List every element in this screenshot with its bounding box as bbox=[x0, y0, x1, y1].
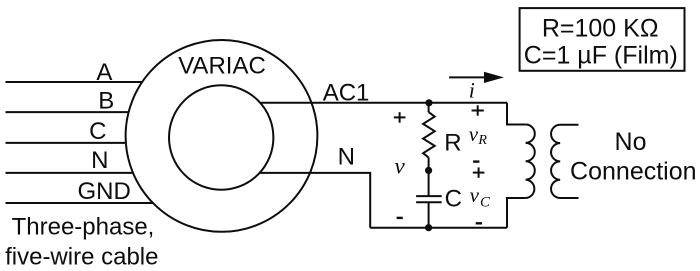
svg-text:C: C bbox=[445, 186, 462, 213]
wire phase B bbox=[6, 111, 129, 113]
inductor L2 secondary winding (no connection) bbox=[551, 125, 578, 198]
wire loop right side bottom bbox=[507, 198, 526, 228]
wire phase A bbox=[6, 81, 143, 83]
arrowhead of current i bbox=[484, 72, 504, 83]
plus sign v left bbox=[394, 116, 406, 118]
svg-text:five-wire cable: five-wire cable bbox=[5, 244, 158, 271]
minus sign vR bbox=[473, 160, 479, 162]
current arrow i bbox=[449, 76, 487, 78]
svg-text:Three-phase,: Three-phase, bbox=[12, 214, 155, 241]
wire resistor-capacitor link bbox=[428, 157, 430, 196]
node AC1 junction dot bbox=[425, 99, 432, 106]
wire bottom return bbox=[370, 227, 507, 229]
svg-text:AC1: AC1 bbox=[323, 79, 370, 106]
wire GND bbox=[6, 202, 153, 204]
svg-text:v: v bbox=[470, 183, 480, 207]
svg-text:VARIAC: VARIAC bbox=[178, 52, 266, 79]
inductor L1 primary winding bbox=[526, 125, 535, 199]
svg-text:B: B bbox=[98, 88, 114, 115]
svg-text:A: A bbox=[96, 59, 112, 86]
wire resistor top lead bbox=[428, 103, 430, 112]
capacitor C bottom plate bbox=[416, 201, 442, 203]
variac T1 outer circle bbox=[126, 40, 318, 232]
wire loop right side top bbox=[507, 103, 526, 125]
wire neutral N bbox=[6, 172, 134, 174]
svg-text:C: C bbox=[89, 118, 106, 145]
svg-text:GND: GND bbox=[78, 178, 131, 205]
capacitor C top plate bbox=[416, 195, 442, 197]
plus sign vR bbox=[472, 110, 484, 112]
wire capacitor bottom lead bbox=[428, 202, 430, 228]
svg-text:v: v bbox=[469, 122, 479, 146]
variac T1 inner circle bbox=[169, 85, 273, 189]
resistor R zigzag bbox=[423, 112, 435, 157]
plus sign vC bbox=[473, 172, 485, 174]
node R-C junction dot bbox=[425, 167, 432, 174]
svg-text:v: v bbox=[395, 154, 406, 179]
svg-text:R=100 KΩ: R=100 KΩ bbox=[542, 15, 659, 43]
wire N output bbox=[259, 173, 370, 228]
svg-text:Connection: Connection bbox=[570, 158, 696, 186]
minus sign vC bbox=[476, 222, 482, 224]
minus sign v left bbox=[397, 217, 403, 219]
svg-text:R: R bbox=[444, 129, 461, 156]
svg-text:C: C bbox=[480, 195, 491, 211]
svg-text:C=1 µF (Film): C=1 µF (Film) bbox=[524, 42, 678, 70]
svg-text:N: N bbox=[91, 147, 108, 174]
wire phase C bbox=[6, 142, 126, 144]
svg-text:N: N bbox=[338, 144, 355, 171]
node bottom junction dot bbox=[425, 224, 432, 231]
svg-text:R: R bbox=[477, 133, 487, 148]
wire AC1 output bbox=[260, 102, 507, 104]
annotation box R and C values bbox=[520, 8, 685, 71]
svg-text:No: No bbox=[615, 128, 647, 156]
svg-text:i: i bbox=[469, 78, 475, 103]
